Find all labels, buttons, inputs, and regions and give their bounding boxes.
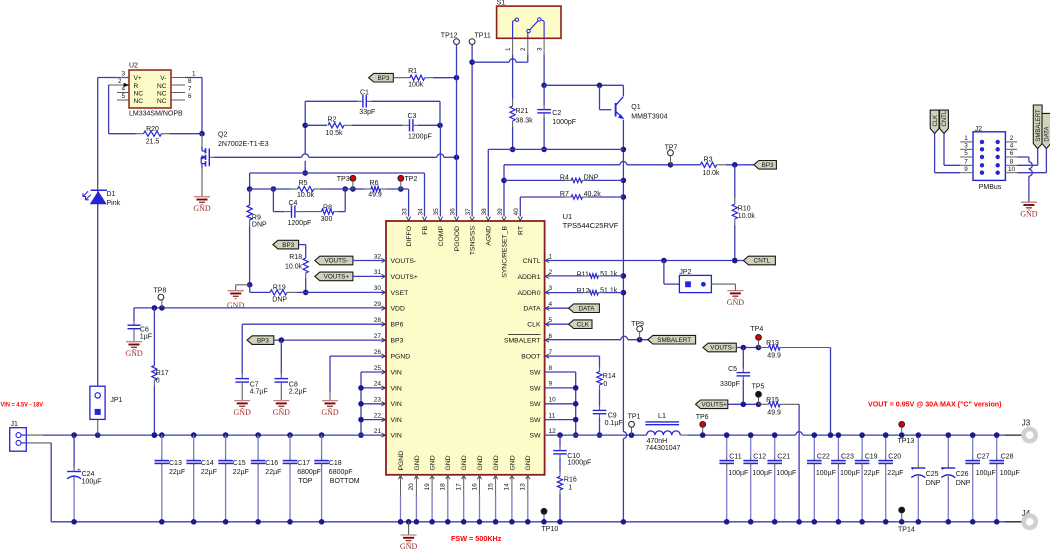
svg-text:TP10: TP10 [542,526,559,533]
svg-text:31: 31 [374,269,382,276]
svg-text:VOUTS-: VOUTS- [710,345,734,352]
svg-text:NC: NC [157,83,167,90]
svg-text:C28: C28 [1001,453,1014,460]
svg-text:2.2µF: 2.2µF [289,389,307,396]
svg-text:GND: GND [125,349,143,358]
svg-text:51.1k: 51.1k [600,288,618,295]
net flag SMBALERT vertical [1033,105,1042,149]
test point TP8 [154,288,167,308]
svg-text:VOUTS+: VOUTS+ [324,274,350,281]
wire S1 pin1 to R21 [512,55,514,99]
resistor R1 100k [393,68,459,88]
svg-text:100µF: 100µF [728,470,748,477]
svg-text:C26: C26 [956,471,969,478]
svg-text:8: 8 [188,78,192,85]
svg-text:DATA: DATA [523,306,541,313]
svg-text:C24: C24 [82,471,95,478]
resistor R2 10.5k [305,116,402,137]
wire JP2 branch [664,261,680,285]
svg-text:22µF: 22µF [864,470,880,477]
net flag VOUTS+ at R15 [696,400,728,409]
capacitor C23 100µF [831,432,860,524]
svg-text:ADDR0: ADDR0 [517,290,540,297]
svg-text:BP3: BP3 [257,337,269,344]
net flag BP3 at R1 [369,73,394,82]
U1 top pin names and numbers [401,208,524,278]
capacitor C12 100µF [743,432,772,524]
svg-text:C14: C14 [201,460,214,467]
svg-text:R1: R1 [408,68,417,75]
svg-text:37: 37 [465,208,472,216]
capacitor C18 6800pF BOTTOM [314,435,359,524]
wire CNTL to J2 pin 7 [944,134,960,166]
svg-text:R3: R3 [704,157,713,164]
svg-text:5: 5 [549,317,553,324]
wire CLK to J2 pin 9 [935,134,961,173]
wire S1 pin2 drop [527,55,529,63]
svg-text:BP3: BP3 [762,162,774,169]
svg-text:6: 6 [1010,150,1014,157]
svg-text:J3: J3 [1022,419,1031,428]
resistor R18 10.0k [285,245,309,296]
svg-text:21.5: 21.5 [146,139,160,146]
svg-text:COMP: COMP [438,226,445,247]
svg-text:25: 25 [374,365,382,372]
S1 pin 2 stub [520,38,528,54]
svg-text:49.9: 49.9 [767,352,781,359]
svg-text:10.0k: 10.0k [285,264,303,271]
svg-text:2: 2 [1010,135,1014,142]
svg-text:38: 38 [481,208,488,216]
svg-text:330pF: 330pF [720,381,740,388]
wire S1 pin2 row [472,59,528,62]
capacitor C10 1000pF [553,435,591,471]
svg-text:6800pF: 6800pF [329,469,353,476]
capacitor C19 22µF [855,432,880,524]
wire VSET to pin 30 [306,291,386,293]
svg-text:CLK: CLK [527,322,541,329]
test point TP2 [398,175,418,189]
svg-text:L1: L1 [658,411,666,420]
svg-text:TP12: TP12 [441,32,458,39]
svg-text:100µF: 100µF [82,478,102,485]
wire AGND row to pin 38 [488,149,623,216]
resistor R12 51.1k [545,288,624,295]
svg-text:100µF: 100µF [1000,470,1020,477]
svg-text:AGND: AGND [486,226,493,246]
svg-text:SW: SW [530,385,542,392]
svg-text:20: 20 [408,483,415,491]
svg-text:16: 16 [471,483,478,491]
net flag SMBALERT [648,335,696,344]
wire COMP network left vertical [302,101,308,176]
svg-text:DATA: DATA [579,305,596,312]
svg-text:300: 300 [321,216,333,223]
wire SW node row [545,432,647,438]
svg-text:CNTL: CNTL [523,258,541,265]
svg-text:SMBALERT: SMBALERT [504,338,541,345]
ground under C6 [125,334,143,358]
svg-text:10.5k: 10.5k [325,130,343,137]
svg-text:GND: GND [461,455,468,470]
svg-text:LM334SM/NOPB: LM334SM/NOPB [129,111,183,118]
svg-text:1000pF: 1000pF [568,460,592,467]
capacitor C13 22µF [155,435,186,524]
U2 pin 5 stub [117,93,129,100]
svg-text:ADDR1: ADDR1 [517,274,540,281]
svg-text:34: 34 [417,208,424,216]
svg-text:VOUTS-: VOUTS- [391,258,417,265]
svg-text:22µF: 22µF [201,469,217,476]
S1 pin 1 stub [505,38,513,54]
svg-text:PGND: PGND [391,354,411,361]
wire SYNC/RESET_B row [501,161,673,216]
svg-text:U1: U1 [563,212,573,221]
resistor R6 49.9 [353,180,409,198]
svg-text:26: 26 [374,349,382,356]
svg-text:9: 9 [964,166,968,173]
svg-text:R6: R6 [370,180,379,187]
svg-text:3: 3 [549,285,553,292]
svg-text:R16: R16 [564,476,577,483]
svg-text:C5: C5 [728,366,737,373]
resistor R20 21.5 [109,126,202,146]
svg-text:7: 7 [549,349,553,356]
svg-text:TP5: TP5 [752,384,765,391]
ground at PGND pin 26 [321,392,339,417]
svg-text:VIN: VIN [391,369,402,376]
ground at VSET divider [227,285,250,310]
resistor R15 49.9 [759,397,802,525]
svg-text:C11: C11 [729,453,741,460]
svg-text:100µF: 100µF [776,470,796,477]
connector J1 [10,421,52,451]
svg-text:32: 32 [374,253,382,260]
wire VOUTS+ row [728,402,762,408]
wire S1 pin3 to C2 [541,55,547,89]
svg-text:GND: GND [1020,209,1038,218]
net flag DATA vertical [1042,113,1050,148]
svg-text:7: 7 [188,86,192,93]
svg-text:1000pF: 1000pF [552,119,576,126]
U2 pin 8 stub [171,78,192,85]
wire V+ net (U2 pin3 to D1/JP1 vertical) [98,78,129,186]
svg-text:49.9: 49.9 [767,409,781,416]
svg-text:38.3k: 38.3k [516,118,534,125]
svg-text:40: 40 [513,208,520,216]
resistor R10 10.0k [732,165,755,264]
svg-text:100µF: 100µF [840,470,860,477]
svg-text:GND: GND [234,408,252,417]
svg-text:SW: SW [530,401,542,408]
svg-text:22µF: 22µF [169,469,185,476]
svg-text:V-: V- [160,75,166,82]
svg-text:35: 35 [433,208,440,216]
ground at U1 bottom [400,519,418,551]
switch S1 [497,0,561,38]
wire Q2 gate row to PGOOD node [214,154,459,160]
U2 pin 1 stub [171,71,196,78]
net flag CNTL vertical [940,110,949,133]
wire FB top row [250,173,425,217]
capacitor C24 100uF polarized [67,435,102,524]
svg-text:4: 4 [1010,143,1014,150]
svg-text:C6: C6 [140,326,149,333]
wire FB row junction dots [247,186,404,192]
svg-text:CLK: CLK [577,321,590,328]
J2 pin stubs [960,135,1017,173]
svg-text:C17: C17 [297,460,310,467]
svg-text:MMBT3904: MMBT3904 [631,113,667,120]
wire DIFFO drop to pin 33 [408,189,410,217]
svg-text:TSNS/SS: TSNS/SS [470,226,477,256]
svg-text:15: 15 [487,483,494,491]
svg-text:R12: R12 [577,288,590,295]
svg-text:C3: C3 [408,113,417,120]
wire DATA to J2 pin 10 [1017,149,1046,173]
svg-text:VDD: VDD [391,306,405,313]
capacitor C9 0.1uF [593,406,623,438]
capacitor C15 22µF [218,435,249,524]
svg-text:C8: C8 [289,381,298,388]
svg-text:22: 22 [374,412,382,419]
svg-text:C21: C21 [777,453,790,460]
resistor R4 DNP [504,174,623,182]
svg-text:R2: R2 [328,116,337,123]
wire CNTL row pin 1 [545,258,744,264]
wire Q1 collector loop [544,83,623,110]
svg-text:5: 5 [964,150,968,157]
test point TP14 [898,507,915,533]
svg-text:V+: V+ [134,75,142,82]
svg-text:R21: R21 [516,108,529,115]
svg-text:GND: GND [321,408,339,417]
svg-text:C13: C13 [169,460,182,467]
svg-text:VOUT = 0.95V @ 30A MAX ("C" ve: VOUT = 0.95V @ 30A MAX ("C" version) [868,402,1002,409]
svg-text:1200pF: 1200pF [288,220,312,227]
capacitor C25 DNP polarized [911,432,941,524]
wire TP12 to PGOOD pin 36 [456,45,458,217]
svg-text:10.0k: 10.0k [702,170,720,177]
wire BP3 pin 27 row [274,337,386,343]
U2 pin 6 stub [171,93,192,100]
svg-text:R9: R9 [252,214,261,221]
svg-text:NC: NC [134,98,144,105]
svg-text:BP3: BP3 [282,242,294,249]
ground at J2 [1020,202,1038,218]
svg-text:C19: C19 [865,453,878,460]
svg-text:NC: NC [157,98,167,105]
svg-text:19: 19 [424,483,431,491]
svg-text:C4: C4 [289,200,298,207]
LED D1 Pink [83,174,121,386]
connector J2 PMBus header [973,126,1005,191]
svg-text:SMBALERT: SMBALERT [657,337,691,344]
net flag CNTL [743,256,775,265]
U1 bottom pin wires [398,475,531,525]
jumper JP1 [90,386,123,435]
svg-text:470nH: 470nH [647,438,668,445]
svg-text:2N7002E-T1-E3: 2N7002E-T1-E3 [218,141,269,148]
test point TP3 [337,175,356,189]
label VOUT red [868,402,1002,409]
capacitor C2 1000pF [537,85,576,152]
capacitor C6 1uF [128,308,153,341]
svg-text:C22: C22 [817,453,830,460]
svg-text:C2: C2 [552,110,561,117]
svg-text:8: 8 [1010,159,1014,166]
ground at JP2 [727,284,745,307]
svg-text:100µF: 100µF [816,470,836,477]
svg-text:Q2: Q2 [218,132,227,139]
transistor Q2 2N7002E-T1-E3 [201,132,268,169]
svg-text:17: 17 [456,483,463,491]
resistor R7 40.2k [520,191,623,217]
svg-text:C27: C27 [977,453,990,460]
svg-text:10: 10 [1008,166,1016,173]
svg-text:13: 13 [520,483,527,491]
svg-text:7: 7 [964,159,968,166]
U1 left pin names and numbers [374,253,418,439]
svg-text:100µF: 100µF [752,470,772,477]
svg-text:C20: C20 [888,453,901,460]
net flag VOUTS- at R13 [703,343,736,352]
svg-text:29: 29 [374,301,382,308]
resistor R3 10.0k [671,157,754,177]
svg-text:DNP: DNP [926,480,941,487]
svg-text:C25: C25 [926,471,939,478]
svg-text:24: 24 [374,381,382,388]
svg-text:FB: FB [422,226,429,235]
ground under C8 [273,392,291,417]
svg-text:SW: SW [530,433,542,440]
svg-text:18: 18 [440,483,447,491]
svg-text:R19: R19 [273,284,286,291]
resistor R8 300 [300,205,338,224]
svg-text:R5: R5 [299,180,308,187]
svg-text:DNP: DNP [272,297,287,304]
svg-text:Pink: Pink [107,200,121,207]
wire SW pins vertical [545,372,579,438]
wire C4/R8 branch [273,189,345,212]
svg-text:VOUTS+: VOUTS+ [701,402,727,409]
capacitor C5 330pF [720,348,750,405]
svg-text:C16: C16 [265,460,278,467]
svg-text:+: + [911,466,915,473]
svg-text:PGND: PGND [398,451,405,471]
svg-text:VOUTS-: VOUTS- [324,258,348,265]
svg-text:3: 3 [964,143,968,150]
wire PGND pin 26 down [330,356,386,392]
wire DATA pin 4 [545,307,569,309]
capacitor C3 1200pF [403,113,443,141]
test point TP5 [752,384,765,405]
net flag BP3 at R18 [273,240,299,249]
svg-text:9: 9 [549,381,553,388]
svg-text:744301047: 744301047 [645,445,680,452]
svg-text:2: 2 [520,47,527,51]
wire BP6 pin 28 to C7 [242,324,386,374]
svg-text:R: R [134,83,139,90]
svg-text:J1: J1 [11,421,19,428]
svg-text:6: 6 [549,333,553,340]
svg-text:1: 1 [964,135,968,142]
svg-text:Q1: Q1 [631,104,640,111]
svg-text:R18: R18 [289,254,302,261]
svg-text:22µF: 22µF [265,469,281,476]
svg-text:NC: NC [134,91,144,98]
U1 right pin names and numbers [504,253,556,439]
svg-text:VIN: VIN [391,385,402,392]
net flag CLK [569,320,592,329]
wire COMP vertical to pin 35 [439,101,441,216]
svg-text:NC: NC [157,91,167,98]
wire CLK pin 5 [545,323,569,325]
svg-text:VIN: VIN [391,433,402,440]
net flag DATA [569,304,600,313]
test point TP10 [541,508,558,533]
svg-text:C15: C15 [233,460,246,467]
svg-text:23: 23 [374,397,382,404]
resistor R21 38.3k [510,99,533,152]
svg-text:0: 0 [603,381,607,388]
svg-text:GND: GND [445,455,452,470]
svg-text:BOTTOM: BOTTOM [330,478,360,485]
wire SMBALERT to J2 pin 8 [1017,149,1037,166]
inductor L1 470nH 744301047 [639,411,688,452]
svg-text:10.0k: 10.0k [738,213,756,220]
svg-text:U2: U2 [129,63,138,70]
svg-text:BP6: BP6 [391,322,404,329]
svg-text:39: 39 [497,208,504,216]
svg-text:+: + [941,466,945,473]
svg-text:GND: GND [414,455,421,470]
svg-text:D1: D1 [107,191,116,198]
svg-text:22µF: 22µF [887,470,903,477]
wire VOUT bus [688,432,1007,435]
svg-text:1: 1 [505,47,512,51]
capacitor C17 6800pF TOP [283,435,321,524]
capacitor C21 100µF [767,432,796,524]
svg-text:TOP: TOP [298,478,313,485]
svg-text:TP3: TP3 [337,176,350,183]
svg-text:GND: GND [430,455,437,470]
svg-text:R11: R11 [577,271,589,278]
svg-text:TP1: TP1 [628,414,641,421]
U1 bottom pin numbers [408,483,526,491]
IC U2 LM334SM/NOPB [129,63,183,118]
svg-text:22µF: 22µF [233,469,249,476]
svg-text:1: 1 [549,253,553,260]
wire VOUTS- row [736,345,761,351]
net flag BP3 at pin 27 [247,336,274,345]
svg-text:6: 6 [188,93,192,100]
test point TP9 [631,321,644,340]
capacitor C14 22µF [186,435,217,524]
svg-text:11: 11 [549,412,556,419]
test point TP1 [628,414,641,436]
svg-text:C7: C7 [250,381,259,388]
capacitor C28 100uF [989,432,1019,524]
U2 pin 3 stub [117,71,129,78]
test point TP7 [665,144,678,165]
U2 pin 4 stub [117,86,129,93]
svg-text:TP2: TP2 [405,176,418,183]
svg-text:36: 36 [449,208,456,216]
svg-text:C9: C9 [608,412,617,419]
svg-text:R10: R10 [738,205,751,212]
svg-text:VSET: VSET [391,290,409,297]
